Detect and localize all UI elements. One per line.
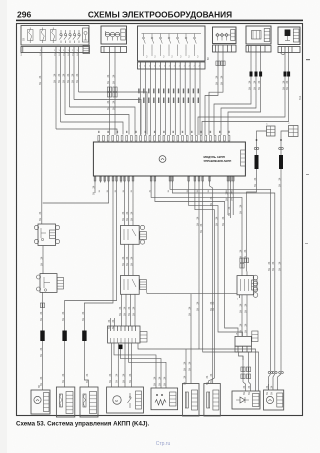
- svg-text:БЧ: БЧ: [272, 267, 275, 271]
- svg-text:БЧ: БЧ: [62, 79, 65, 83]
- wire R block to Q2 horizontal: [146, 290, 237, 294]
- svg-text:БЧ: БЧ: [71, 79, 74, 83]
- wire S2 down to G: [40, 292, 45, 390]
- caption: [16, 421, 149, 428]
- wire hr3 to Q2 left: [151, 183, 242, 260]
- connector R: [121, 276, 147, 295]
- ECU bottom pin row: [94, 176, 234, 183]
- svg-text:БЧ: БЧ: [76, 79, 79, 83]
- svg-text:БЧ: БЧ: [123, 312, 126, 316]
- svg-text:БЧ: БЧ: [286, 86, 289, 90]
- svg-text:БЧ: БЧ: [122, 379, 125, 383]
- wire bundle from box A w4: [67, 53, 70, 108]
- svg-text:БЧ: БЧ: [188, 367, 191, 371]
- wire B1: [107, 53, 112, 136]
- ECU top pin row: [98, 131, 230, 141]
- labels above N: [243, 385, 251, 395]
- svg-text:БЧ: БЧ: [239, 210, 242, 214]
- connector strip under box B: [101, 47, 127, 53]
- svg-text:БЧ: БЧ: [200, 229, 203, 233]
- wires JB to J: [109, 343, 132, 387]
- wires Q to R: [122, 244, 133, 275]
- wire hr1 to O left: [170, 183, 271, 372]
- junction stubs above JB: [108, 318, 115, 329]
- diagram frame: [17, 24, 303, 416]
- svg-text:2: 2: [144, 66, 145, 68]
- svg-text:БЧ: БЧ: [153, 382, 156, 386]
- svg-text:БЧ: БЧ: [210, 307, 213, 311]
- svg-text:БЧ: БЧ: [109, 379, 112, 383]
- svg-text:2: 2: [164, 66, 165, 68]
- header title: [88, 10, 232, 20]
- svg-text:БЧ: БЧ: [244, 329, 247, 333]
- svg-text:БЧ: БЧ: [188, 312, 191, 316]
- solenoid box B: [101, 26, 127, 44]
- svg-text:БЧ: БЧ: [243, 391, 246, 395]
- heater K: [151, 388, 178, 410]
- svg-text:2: 2: [174, 66, 175, 68]
- wire E1: [214, 52, 253, 135]
- svg-text:БЧ: БЧ: [253, 86, 256, 90]
- sensor box D: [213, 27, 237, 44]
- header rule: [16, 20, 303, 22]
- wire P to N right: [246, 352, 250, 391]
- sensor Q2: [237, 275, 258, 297]
- svg-text:БЧ: БЧ: [266, 391, 269, 395]
- svg-text:БЧ: БЧ: [268, 267, 271, 271]
- svg-text:БЧ: БЧ: [130, 217, 133, 221]
- connector block C1: [266, 124, 275, 137]
- svg-text:БЧ: БЧ: [116, 379, 119, 383]
- sensor I: [80, 387, 98, 417]
- labels above G: [39, 384, 41, 388]
- junction dot: [119, 345, 123, 350]
- ECU bottom pin labels: [99, 189, 234, 192]
- svg-text:БЧ: БЧ: [130, 262, 133, 266]
- wire from block C1 down: [254, 131, 266, 155]
- wire hr2 to O mid: [172, 183, 275, 372]
- labels above O: [266, 384, 274, 395]
- connector strip under box E: [246, 46, 271, 53]
- wire S1 to S2: [40, 246, 43, 274]
- wire P to N left: [241, 356, 246, 391]
- wire pin116 to H: [62, 183, 117, 388]
- wire bundle from box A w2: [58, 53, 61, 123]
- svg-text:34: 34: [123, 306, 126, 309]
- strip under P: [235, 346, 251, 352]
- wire bundle box C to ECU: [141, 69, 200, 135]
- wire E3: [228, 52, 262, 135]
- connector Q: [121, 225, 147, 244]
- svg-text:БЧ: БЧ: [278, 267, 281, 271]
- svg-text:БЧ: БЧ: [92, 191, 95, 195]
- wire D1: [205, 52, 220, 135]
- svg-text:2: 2: [154, 66, 155, 68]
- watermark: [156, 441, 171, 447]
- svg-text:БЧ: БЧ: [126, 217, 129, 221]
- svg-text:БЧ: БЧ: [210, 202, 213, 206]
- ECU left pin stub: [92, 183, 95, 196]
- header page number 296: [17, 10, 31, 20]
- svg-text:БЧ: БЧ: [86, 379, 89, 383]
- svg-text:БЧ: БЧ: [129, 379, 132, 383]
- svg-text:БЧ: БЧ: [258, 86, 261, 90]
- pump motor J: [107, 387, 144, 413]
- sensor H: [56, 387, 74, 417]
- svg-text:БЧ: БЧ: [228, 212, 231, 216]
- wire pin202 stub: [200, 183, 258, 392]
- junction box JB: [108, 326, 147, 343]
- svg-text:БЧ: БЧ: [67, 79, 70, 83]
- svg-text:БЧ: БЧ: [231, 197, 234, 201]
- wire F2: [202, 53, 290, 136]
- connector strip under box C: [138, 62, 206, 69]
- wire P1 jog: [239, 352, 244, 360]
- oval connector on O mid wire: [273, 371, 278, 390]
- svg-text:БЧ: БЧ: [215, 222, 218, 226]
- diode unit N: [232, 391, 260, 409]
- wires Q2 down to P: [239, 295, 247, 337]
- wire pin to S1 horizontal: [43, 183, 109, 204]
- svg-text:БЧ: БЧ: [107, 80, 110, 84]
- connector on Q2 left wire: [240, 258, 244, 276]
- box C bundle labels row1: [138, 89, 199, 94]
- svg-text:БЧ: БЧ: [39, 217, 42, 221]
- svg-text:БЧ: БЧ: [183, 367, 186, 371]
- svg-text:БЧ: БЧ: [254, 183, 257, 187]
- connector sleeve on wire to G: [40, 331, 44, 342]
- connector sleeve on wire to I: [82, 331, 86, 342]
- svg-text:1: 1: [237, 299, 238, 301]
- svg-text:БЧ: БЧ: [122, 262, 125, 266]
- wire pins to Q w1: [122, 183, 125, 226]
- wire bundle from box A w3: [62, 53, 65, 115]
- svg-text:БЧ: БЧ: [248, 86, 251, 90]
- actuator G: [31, 390, 50, 414]
- resistor sensor L: [183, 384, 200, 417]
- svg-text:БЧ: БЧ: [282, 86, 285, 90]
- svg-text:В12: В12: [299, 95, 302, 100]
- svg-text:БЧ: БЧ: [128, 312, 131, 316]
- wire box A pin1 long down: [39, 53, 42, 204]
- svg-text:БЧ: БЧ: [53, 79, 56, 83]
- sensor box E: [246, 26, 271, 44]
- connector strip under box A: [21, 46, 90, 54]
- wire hr4 to P: [155, 183, 238, 337]
- svg-text:БЧ: БЧ: [215, 81, 218, 85]
- relay-fuse box A: [21, 26, 89, 46]
- connector strip under box D: [213, 43, 237, 52]
- page left margin shading: [0, 0, 11, 453]
- wires R down to junction box: [119, 294, 135, 326]
- wire pins to Q w3: [130, 183, 133, 226]
- svg-text:БЧ: БЧ: [122, 217, 125, 221]
- wire pin113 to I: [82, 183, 113, 388]
- wire B2: [112, 53, 117, 136]
- wire bundle from box A w6: [76, 53, 79, 93]
- long horizontal wire to L and N: [138, 343, 199, 385]
- selector switch box C: [138, 26, 206, 61]
- wire down to relay S1: [39, 203, 42, 224]
- box C bundle labels row2: [138, 98, 199, 104]
- solenoid O: [264, 390, 284, 410]
- staircase JB to K w1: [114, 343, 156, 388]
- svg-text:БЧ: БЧ: [278, 183, 281, 187]
- svg-text:2: 2: [149, 66, 150, 68]
- svg-text:БЧ: БЧ: [40, 262, 43, 266]
- resistor sensor M: [204, 384, 220, 417]
- svg-text:БЧ: БЧ: [112, 80, 115, 84]
- wire pin209 to M: [210, 183, 214, 384]
- svg-text:2: 2: [189, 66, 190, 68]
- connector block C2: [288, 123, 298, 137]
- staircase JB to K w3: [129, 343, 167, 388]
- svg-text:БЧ: БЧ: [210, 379, 213, 383]
- wire D2: [209, 52, 225, 135]
- wire pin230 stub: [228, 183, 231, 219]
- svg-text:БЧ: БЧ: [39, 81, 42, 85]
- svg-text:2: 2: [159, 66, 160, 68]
- svg-text:2: 2: [139, 66, 140, 68]
- svg-text:БЧ: БЧ: [225, 197, 228, 201]
- wire C2 long down to O: [278, 169, 284, 390]
- Q2 bottom strip ticks: [237, 295, 240, 301]
- wire from block C2 down: [279, 131, 289, 155]
- svg-text:БЧ: БЧ: [119, 312, 122, 316]
- svg-text:БЧ: БЧ: [40, 353, 43, 357]
- staircase JB to K w2: [121, 349, 162, 388]
- svg-text:БЧ: БЧ: [222, 222, 225, 226]
- svg-text:БЧ: БЧ: [270, 391, 273, 395]
- svg-text:БЧ: БЧ: [244, 309, 247, 313]
- wire pin233 stub: [231, 183, 234, 216]
- wire E2: [221, 52, 258, 135]
- wire branch down to L: [188, 294, 191, 384]
- svg-text:Стр.ru: Стр.ru: [156, 441, 171, 447]
- oval connector on O left wire: [268, 371, 273, 390]
- svg-text:2: 2: [184, 66, 185, 68]
- svg-text:2: 2: [199, 66, 200, 68]
- svg-text:БЧ: БЧ: [220, 81, 223, 85]
- svg-text:Схема 53. Система управления А: Схема 53. Система управления АКПП (K4J).: [16, 421, 149, 428]
- svg-text:296: 296: [17, 10, 31, 20]
- right margin tiny marks: [305, 59, 310, 244]
- right margin vertical label: [299, 95, 302, 100]
- relay S2: [37, 274, 64, 293]
- svg-text:БЧ: БЧ: [158, 382, 161, 386]
- svg-text:БЧ: БЧ: [196, 307, 199, 311]
- sensor box F: [278, 27, 300, 45]
- wire bundle from box A w1: [53, 53, 56, 130]
- ECU module box U1: [93, 142, 245, 176]
- svg-text:БЧ: БЧ: [62, 379, 65, 383]
- svg-text:БЧ: БЧ: [132, 312, 135, 316]
- wire pin194 to M left: [195, 183, 215, 386]
- connector strip under box F: [278, 47, 300, 55]
- svg-text:УПРАВЛЕНИЯ АКПП: УПРАВЛЕНИЯ АКПП: [204, 159, 232, 163]
- svg-text:СХЕМЫ ЭЛЕКТРООБОРУДОВАНИЯ: СХЕМЫ ЭЛЕКТРООБОРУДОВАНИЯ: [88, 10, 232, 20]
- svg-text:БЧ: БЧ: [40, 317, 43, 321]
- connector sleeve on wire to H: [62, 331, 66, 342]
- svg-text:БЧ: БЧ: [58, 79, 61, 83]
- wire pins to Q w2: [126, 183, 129, 226]
- wire pin228 stub: [225, 183, 228, 216]
- svg-text:2: 2: [179, 66, 180, 68]
- svg-text:БЧ: БЧ: [107, 106, 110, 110]
- svg-text:БЧ: БЧ: [82, 317, 85, 321]
- relay S1: [34, 224, 59, 246]
- left staircase wires into ECU: [56, 92, 147, 135]
- vertical label between C and D: [208, 56, 210, 60]
- strip A pin labels: [21, 52, 79, 56]
- svg-text:БЧ: БЧ: [126, 262, 129, 266]
- svg-text:2: 2: [194, 66, 195, 68]
- connector sleeve on wire C2: [279, 155, 283, 169]
- svg-text:БЧ: БЧ: [248, 391, 251, 395]
- svg-text:2: 2: [169, 66, 170, 68]
- wire pin188 to P: [189, 183, 243, 337]
- wire F1: [198, 53, 287, 136]
- svg-text:БЧ: БЧ: [239, 329, 242, 333]
- svg-text:БЧ: БЧ: [112, 106, 115, 110]
- svg-text:БЧ: БЧ: [163, 382, 166, 386]
- connector sleeve on wire C1: [255, 155, 259, 169]
- wire bundle from box A w5: [71, 53, 74, 100]
- svg-text:БЧ: БЧ: [196, 222, 199, 226]
- wire pin199 to N: [196, 183, 255, 392]
- svg-text:БЧ: БЧ: [62, 317, 65, 321]
- wire C1 down-left to Q2: [244, 169, 257, 276]
- svg-text:БЧ: БЧ: [239, 309, 242, 313]
- connector P: [235, 331, 258, 346]
